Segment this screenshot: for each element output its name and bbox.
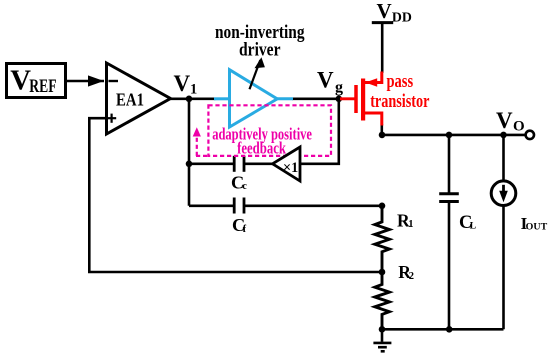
svg-text:pass: pass <box>387 71 414 92</box>
svg-text:V: V <box>174 71 191 96</box>
svg-text:EA1: EA1 <box>116 89 144 109</box>
svg-text:V: V <box>377 0 392 23</box>
svg-text:feedback: feedback <box>237 139 287 158</box>
svg-text:1: 1 <box>408 219 413 230</box>
svg-text:2: 2 <box>409 271 414 282</box>
svg-text:V: V <box>496 108 513 133</box>
svg-text:V: V <box>10 65 31 97</box>
svg-text:OUT: OUT <box>526 223 548 233</box>
svg-text:g: g <box>335 79 343 96</box>
svg-text:×1: ×1 <box>283 160 298 176</box>
svg-text:REF: REF <box>29 77 56 97</box>
svg-text:O: O <box>513 119 525 135</box>
svg-text:transistor: transistor <box>370 91 429 112</box>
svg-text:1: 1 <box>190 82 197 98</box>
svg-text:L: L <box>470 222 476 232</box>
svg-text:DD: DD <box>392 11 412 26</box>
svg-text:V: V <box>317 68 334 93</box>
svg-text:driver: driver <box>239 40 281 61</box>
svg-text:c: c <box>242 181 247 192</box>
